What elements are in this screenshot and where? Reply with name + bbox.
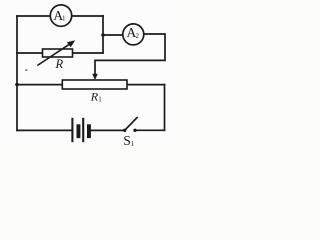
wire junction node to A2 left bbox=[103, 34, 133, 36]
switch S1 left contact dot bbox=[123, 129, 126, 132]
node junction dot at A2 branch bbox=[101, 33, 105, 37]
wire right vertical from R1 row to bottom bbox=[164, 85, 166, 131]
switch S1 right contact dot bbox=[133, 129, 136, 132]
node junction dot at R1 left on left vertical bbox=[15, 83, 19, 87]
ammeter A2 bbox=[123, 24, 144, 45]
slider arrowhead into R1 bbox=[92, 74, 98, 80]
stray small mark left of rheostat bbox=[25, 70, 28, 71]
rheostat R box bbox=[43, 49, 73, 57]
wire bottom left to battery bbox=[17, 129, 72, 131]
svg-text:R: R bbox=[55, 57, 64, 71]
svg-text:2: 2 bbox=[136, 32, 140, 40]
ammeter A1 bbox=[50, 5, 71, 26]
svg-text:S: S bbox=[123, 133, 131, 148]
wire vertical from top corner down to rheostat level bbox=[102, 16, 104, 53]
battery cell plate long 1 bbox=[71, 118, 73, 142]
switch S1 lever bbox=[125, 117, 138, 130]
battery cell plate long 2 bbox=[82, 118, 84, 142]
label R1 bbox=[90, 90, 103, 104]
wire switch to bottom right corner bbox=[136, 129, 164, 131]
svg-text:1: 1 bbox=[62, 15, 66, 23]
wire R1 row bbox=[17, 84, 165, 86]
resistor R1 box bbox=[62, 80, 127, 89]
battery cell plate short thick 1 bbox=[77, 124, 81, 138]
wire left vertical bbox=[16, 16, 18, 130]
rheostat R diagonal arrow bbox=[37, 40, 75, 65]
wire battery to switch bbox=[91, 129, 124, 131]
wire A2 right then down then left to slider arrow bbox=[95, 34, 165, 78]
label R bbox=[55, 57, 64, 71]
wire rheostat row bbox=[17, 52, 103, 54]
label S1 bbox=[123, 133, 135, 148]
wire top from corner through A1 to right corner bbox=[17, 15, 103, 17]
svg-text:1: 1 bbox=[98, 96, 102, 104]
battery cell plate short thick 2 bbox=[87, 124, 91, 138]
svg-text:1: 1 bbox=[131, 140, 135, 148]
